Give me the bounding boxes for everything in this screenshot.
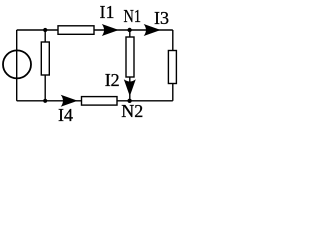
wire: left vertical branch xyxy=(16,30,18,101)
junction dot at bottom of second branch xyxy=(43,99,47,103)
svg-text:I2: I2 xyxy=(105,70,120,90)
wire: bottom horizontal line xyxy=(17,100,173,102)
wire: right vertical branch xyxy=(172,30,174,101)
resistor (top, between left branch and N1) xyxy=(58,26,94,35)
node N1 dot xyxy=(127,28,131,32)
resistor (middle vertical branch, below N1) xyxy=(126,37,134,77)
resistor (left vertical branch) xyxy=(41,42,49,75)
svg-text:N2: N2 xyxy=(121,101,143,121)
resistor (bottom, between I4 and N2) xyxy=(82,97,118,106)
current arrow I4 (points right on bottom wire) xyxy=(61,95,78,107)
wire: middle vertical branch N1 to N2 xyxy=(129,30,131,101)
current arrow I3 (points right, right of N1) xyxy=(144,24,161,36)
source: circle symbol on left branch xyxy=(3,50,31,78)
svg-text:I4: I4 xyxy=(58,105,73,125)
junction dot at top of second branch xyxy=(43,28,47,32)
svg-text:N1: N1 xyxy=(124,6,142,26)
resistor (right vertical branch) xyxy=(168,51,176,84)
node N2 dot xyxy=(127,99,131,103)
current arrow I1 (points right on top wire) xyxy=(102,24,119,36)
wire: top horizontal line xyxy=(17,29,173,31)
wire: second vertical branch xyxy=(44,30,46,101)
svg-text:I1: I1 xyxy=(100,2,115,22)
svg-text:I3: I3 xyxy=(154,8,169,28)
current arrow I2 (points down on middle branch) xyxy=(124,79,136,96)
